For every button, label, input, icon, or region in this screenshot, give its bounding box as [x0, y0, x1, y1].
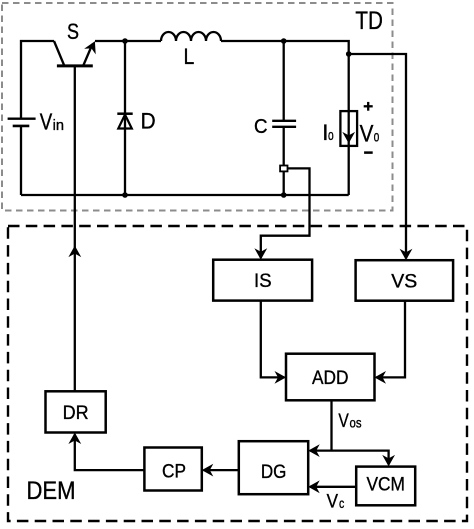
wire load branch (node to bottom rail through load box)	[348, 54, 350, 195]
emitter line	[84, 44, 93, 65]
svg-text:CP: CP	[162, 460, 186, 482]
svg-text:o: o	[374, 129, 380, 146]
arrow into ADD right	[375, 371, 387, 384]
svg-text:V: V	[338, 410, 348, 432]
svg-text:VCM: VCM	[366, 474, 405, 496]
current sensor square	[280, 166, 287, 172]
svg-text:o: o	[328, 127, 334, 144]
inductor L	[161, 32, 221, 41]
arrow into CP right	[202, 464, 214, 477]
arrow into DR bottom	[68, 433, 81, 445]
wire Vos to VCM	[332, 451, 389, 465]
wire top rail (inductor to right corner, down to node)	[221, 41, 349, 54]
svg-text:ADD: ADD	[312, 367, 349, 389]
plus sign	[364, 102, 373, 111]
svg-text:os: os	[350, 416, 362, 431]
block ADD	[286, 354, 375, 401]
svg-text:C: C	[254, 116, 268, 138]
label Vc	[327, 491, 345, 513]
block CP	[144, 448, 201, 491]
wire gate drive (DR up to transistor base)	[74, 66, 76, 391]
wire CP to DR	[75, 434, 145, 470]
svg-text:DG: DG	[261, 461, 287, 483]
TD dashed boundary box	[2, 3, 393, 211]
capacitor C branch wire bottom	[283, 127, 285, 195]
arrow into DG upper right	[308, 444, 320, 457]
transistor S	[54, 38, 101, 65]
wire battery bottom lead	[20, 127, 22, 195]
diode D branch wire	[124, 41, 126, 195]
arrow on gate drive wire	[68, 246, 81, 258]
emitter arrowhead	[84, 38, 101, 54]
base bar	[57, 64, 93, 67]
capacitor C branch wire top	[283, 41, 285, 121]
arrow into VCM top	[382, 455, 395, 467]
node dot capacitor bottom	[281, 192, 287, 198]
collector slope	[54, 41, 64, 65]
battery short plate	[13, 125, 30, 128]
block IS	[213, 260, 312, 301]
arrow into IS	[254, 248, 267, 260]
wire bottom rail	[21, 194, 349, 196]
svg-text:IS: IS	[254, 270, 272, 292]
node dot capacitor top	[281, 38, 287, 44]
svg-text:VS: VS	[391, 270, 417, 292]
label Io	[322, 120, 333, 145]
block VCM	[356, 467, 415, 506]
load current arrow Io	[342, 132, 355, 144]
voltage sense wire to VS	[349, 54, 406, 259]
svg-text:V: V	[327, 491, 338, 513]
label Vo	[360, 121, 380, 148]
block VS	[356, 260, 454, 301]
capacitor C plates	[272, 121, 296, 127]
node dot diode bottom	[122, 192, 128, 198]
wire VS to ADD	[376, 301, 405, 378]
svg-text:in: in	[53, 117, 64, 134]
current sense tap wire to IS	[261, 168, 310, 258]
svg-text:DR: DR	[63, 402, 89, 424]
wire battery top lead	[21, 41, 54, 118]
svg-text:c: c	[339, 496, 344, 511]
svg-text:L: L	[184, 44, 195, 69]
svg-text:TD: TD	[355, 7, 383, 35]
load box	[340, 111, 357, 146]
arrow into ADD left	[275, 371, 287, 384]
battery Vin	[8, 41, 54, 195]
arrow into VS	[400, 249, 413, 261]
diode D symbol	[117, 114, 132, 129]
arrow into DG lower right	[308, 480, 320, 493]
block DG	[239, 441, 308, 494]
label Vos	[338, 410, 361, 432]
wire VCM to DG	[310, 486, 356, 488]
minus sign	[364, 151, 373, 154]
block DR	[46, 391, 106, 432]
wire IS to ADD	[261, 301, 285, 378]
DEM dashed boundary box	[8, 226, 467, 521]
label Vin	[40, 108, 64, 134]
wire Vos to DG	[310, 449, 332, 451]
node dot output corner	[346, 51, 352, 57]
svg-text:D: D	[141, 109, 156, 134]
wire ADD down to Vos node	[330, 400, 332, 450]
node dot diode top	[122, 38, 128, 44]
svg-text:S: S	[67, 19, 79, 44]
svg-text:V: V	[360, 121, 374, 148]
battery long plate	[8, 117, 36, 119]
svg-text:DEM: DEM	[27, 477, 76, 505]
wire DG to CP	[204, 469, 239, 471]
svg-text:V: V	[40, 108, 53, 134]
wire top rail (emitter to inductor)	[95, 40, 161, 42]
